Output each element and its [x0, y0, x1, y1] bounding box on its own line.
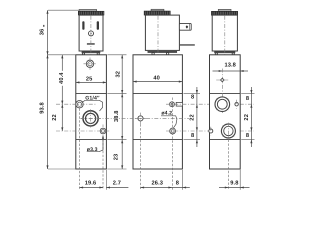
- dashed ext left screw down: [79, 109, 81, 190]
- coil centerline: [157, 16, 159, 58]
- left port screw: [76, 101, 83, 108]
- dim 25: [76, 81, 107, 83]
- small side hole lower: [209, 127, 213, 135]
- svg-text:8: 8: [191, 133, 194, 139]
- svg-text:9.8: 9.8: [230, 181, 238, 187]
- dashed ext lower port down: [227, 140, 229, 190]
- coil legs: [215, 53, 217, 55]
- chain dim 8/22/8 (right): [241, 93, 254, 95]
- coil slot right: [97, 21, 99, 30]
- lower port circle: [221, 123, 235, 140]
- right ext lines: [107, 54, 126, 56]
- ext body right edge down: [239, 170, 241, 190]
- small side hole upper: [235, 100, 238, 109]
- coil flange: [148, 51, 177, 52]
- dim 32 / 38.8 / 23: [121, 55, 123, 169]
- dashed vertical screw/hole: [172, 98, 174, 190]
- svg-text:25: 25: [86, 76, 93, 82]
- coil knob: [151, 9, 164, 11]
- port centerline across: [81, 117, 190, 119]
- main port circle: [81, 109, 101, 127]
- dim 40.4 / 22: [61, 55, 63, 131]
- dashed ext lower screw down: [102, 135, 104, 190]
- svg-text:36: 36: [40, 29, 46, 36]
- left inlet circle: [135, 113, 146, 125]
- coil centre circle: [89, 31, 94, 36]
- ext body top left: [48, 54, 75, 56]
- coil knob: [218, 9, 231, 11]
- cable gland bar: [179, 44, 194, 46]
- valve body end: [210, 55, 241, 169]
- svg-text:13.8: 13.8: [224, 63, 235, 69]
- base plate line: [210, 139, 241, 141]
- coil legs: [152, 53, 154, 55]
- division line: [133, 93, 182, 95]
- svg-text:26.3: 26.3: [152, 180, 163, 186]
- coil lower bar: [87, 43, 95, 45]
- coil body side: [145, 15, 179, 50]
- coil ribbed cap: [211, 11, 237, 15]
- svg-text:8: 8: [246, 133, 249, 139]
- ext coil top: [48, 9, 79, 11]
- dim 13.8: [213, 70, 249, 72]
- coil top serrated bar: [79, 10, 97, 12]
- coil ribbed cap: [78, 11, 104, 15]
- svg-text:38.8: 38.8: [114, 110, 120, 121]
- svg-text:22: 22: [244, 114, 250, 121]
- svg-text:32: 32: [115, 71, 121, 78]
- chain dim 8/22/8 (middle): [184, 93, 201, 95]
- svg-text:40: 40: [153, 76, 160, 82]
- coil ribbed cap: [144, 11, 170, 15]
- coil flange: [215, 52, 236, 53]
- top screw: [84, 58, 97, 71]
- svg-text:19.6: 19.6: [85, 180, 96, 186]
- label o3.3: [87, 135, 104, 153]
- centerline through left screw: [56, 103, 96, 105]
- svg-text:2.7: 2.7: [113, 180, 121, 186]
- dim 36 / 93.8: [47, 10, 49, 169]
- svg-text:40.4: 40.4: [59, 72, 65, 84]
- centerline through lower screw: [56, 130, 110, 132]
- base plate line: [76, 139, 107, 141]
- coil body end: [212, 15, 237, 51]
- valve body front: [76, 55, 107, 169]
- dim 40: [133, 81, 182, 83]
- label G1/4: [82, 96, 103, 111]
- dim 9.8: [219, 187, 250, 189]
- coil slot left: [82, 21, 84, 30]
- port1 centerline across: [166, 103, 254, 105]
- svg-text:8: 8: [191, 94, 194, 100]
- side screw: [170, 102, 175, 107]
- coil centerline: [224, 16, 226, 58]
- lower screw: [100, 128, 106, 134]
- upper port circle: [215, 97, 230, 112]
- o4.2 hole: [170, 128, 176, 134]
- valve body side: [133, 55, 182, 169]
- ext body bottom left: [48, 168, 75, 170]
- division line: [76, 93, 107, 95]
- coil body: [79, 15, 103, 51]
- coil legs: [82, 53, 84, 55]
- coil centerline: [90, 16, 92, 57]
- svg-text:23: 23: [113, 154, 119, 161]
- division line: [210, 93, 241, 95]
- svg-text:22: 22: [52, 114, 58, 121]
- label o4.2: [161, 111, 177, 128]
- svg-text:8: 8: [246, 96, 249, 102]
- coil flange: [82, 52, 100, 53]
- bottom dims 26.3 / 8: [182, 170, 184, 190]
- svg-text:93.8: 93.8: [40, 102, 46, 113]
- base plate line: [133, 139, 182, 141]
- svg-text:22: 22: [189, 114, 195, 121]
- svg-text:G1/4″: G1/4″: [85, 96, 100, 102]
- svg-text:8: 8: [176, 180, 179, 186]
- DIN connector tab: [179, 23, 191, 30]
- port2 centerline across: [166, 130, 254, 132]
- bottom dims 19.6 / 2.7: [105, 170, 107, 190]
- pilot hole diamond: [216, 78, 228, 82]
- side port boss: [176, 102, 182, 106]
